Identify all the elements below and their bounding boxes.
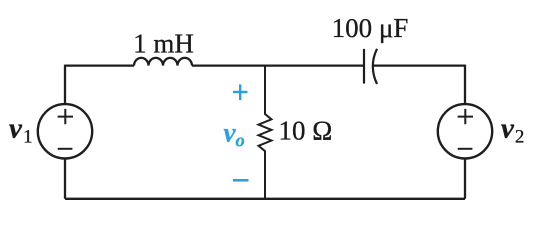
svg-text:vo: vo bbox=[224, 118, 245, 152]
svg-text:v2: v2 bbox=[501, 113, 524, 148]
svg-text:100 μF: 100 μF bbox=[332, 13, 409, 43]
svg-text:10 Ω: 10 Ω bbox=[279, 116, 333, 146]
svg-text:1 mH: 1 mH bbox=[133, 29, 194, 59]
svg-text:v1: v1 bbox=[9, 113, 33, 148]
